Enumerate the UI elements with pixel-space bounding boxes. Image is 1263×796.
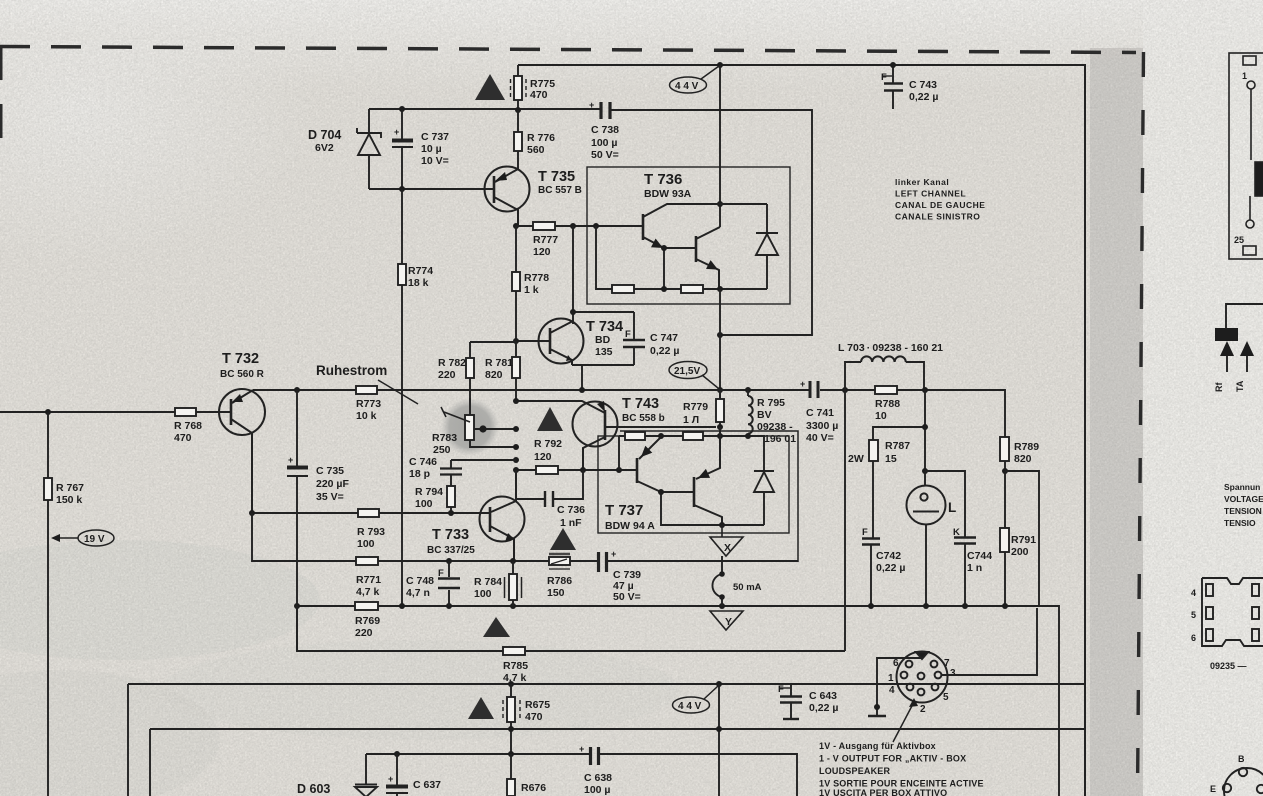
svg-text:C 741: C 741 — [806, 407, 834, 419]
svg-text:220 µF: 220 µF — [316, 478, 349, 490]
svg-text:T 736: T 736 — [644, 171, 682, 188]
resistor R794 — [447, 486, 455, 513]
svg-text:VOLTAGE: VOLTAGE — [1224, 494, 1263, 504]
svg-text:C 638: C 638 — [584, 772, 612, 784]
svg-text:TA: TA — [1235, 380, 1245, 392]
svg-text:C 747: C 747 — [650, 332, 678, 344]
wire T736 bottom row — [596, 226, 767, 289]
resistor R675 — [503, 684, 520, 754]
node T737 Q2 emitter — [717, 433, 723, 439]
capacitor C748 — [438, 561, 460, 606]
wire T734 emitter row to C747 and rail — [572, 365, 634, 390]
wire main rail 21.5V — [253, 390, 1005, 437]
svg-text:X: X — [724, 542, 731, 554]
node R789 bottom — [1002, 468, 1008, 474]
svg-text:R773: R773 — [356, 398, 381, 410]
svg-text:15: 15 — [885, 453, 897, 465]
node T733 emitter — [510, 558, 516, 564]
svg-text:09238 -: 09238 - — [757, 421, 793, 433]
wire C638 row y=754 — [366, 754, 797, 796]
svg-text:4,7 k: 4,7 k — [356, 586, 380, 598]
svg-text:6: 6 — [893, 658, 899, 669]
resistor R774 — [398, 189, 406, 606]
svg-text:C 746: C 746 — [409, 456, 437, 468]
wire R785 row — [297, 606, 845, 651]
wire 44V lower rail y=684 — [128, 684, 1085, 796]
node 44V lower — [716, 681, 722, 687]
svg-text:R787: R787 — [885, 440, 910, 452]
wire base double line — [620, 431, 798, 562]
resistor R676 — [507, 754, 515, 796]
node R675 top — [508, 681, 514, 687]
node C742 bottom — [868, 603, 874, 609]
svg-text:L 703 · 09238 - 160 21: L 703 · 09238 - 160 21 — [838, 342, 943, 354]
panel connector top-right — [1229, 53, 1263, 259]
wire T736 emitter junction — [664, 248, 696, 289]
svg-text:F: F — [778, 684, 784, 695]
node Y column — [719, 603, 725, 609]
node R676 top — [508, 751, 514, 757]
warning triangle top — [475, 74, 505, 100]
capacitor C643 — [780, 684, 802, 719]
svg-text:T 743: T 743 — [622, 396, 659, 412]
wire emitter row y=561 — [252, 513, 798, 561]
svg-text:10 k: 10 k — [356, 410, 377, 422]
svg-text:BDW 94 A: BDW 94 A — [605, 520, 655, 532]
svg-text:T 734: T 734 — [586, 319, 623, 335]
diode T736 internal — [756, 204, 778, 289]
wire T736 output column down to rail — [719, 289, 721, 399]
svg-text:BV: BV — [757, 409, 772, 421]
wire bootstrap row y=109 (D704 node to C738 to output) — [369, 109, 812, 335]
svg-text:R 792: R 792 — [534, 438, 562, 450]
svg-text:560: 560 — [527, 144, 545, 156]
resistor R793 — [358, 509, 379, 517]
node R787 tee — [922, 424, 928, 430]
svg-text:50 V=: 50 V= — [613, 591, 641, 603]
node T736 bottom mid — [661, 286, 667, 292]
node lamp top — [922, 468, 928, 474]
svg-text:50 mA: 50 mA — [733, 582, 762, 593]
node T736 bottom right — [717, 286, 723, 292]
label 21,5V oval with pointer — [669, 362, 718, 389]
svg-text:R 767: R 767 — [56, 482, 84, 494]
wire DIN ground — [868, 658, 922, 716]
capacitor C743 — [882, 65, 903, 109]
svg-text:R 794: R 794 — [415, 486, 443, 498]
svg-text:+: + — [388, 774, 393, 784]
svg-text:1V SORTIE POUR ENCEINTE AC: 1V SORTIE POUR ENCEINTE ACTIVE — [819, 779, 984, 789]
svg-text:BC 560 R: BC 560 R — [220, 369, 265, 380]
svg-text:+: + — [800, 379, 805, 389]
svg-text:C 643: C 643 — [809, 690, 837, 702]
svg-text:F: F — [881, 72, 887, 83]
resistor R775 — [511, 65, 527, 110]
warning triangle R792 — [537, 407, 563, 431]
svg-text:120: 120 — [533, 246, 551, 258]
svg-text:1V - Ausgang für Aktivbox: 1V - Ausgang für Aktivbox — [819, 741, 936, 751]
node C747 top branch — [570, 309, 576, 315]
triangle Y testpoint — [710, 611, 743, 630]
svg-text:1 - V OUTPUT FOR „AKTIV - B: 1 - V OUTPUT FOR „AKTIV - BOX — [819, 754, 966, 764]
panel Rf/TA block — [1215, 328, 1238, 341]
diode D603 (zener) — [355, 754, 377, 796]
capacitor C742 — [862, 539, 880, 607]
svg-text:D 704: D 704 — [308, 128, 341, 142]
node rail C741/L703 left — [842, 387, 848, 393]
trimmer R783 with highlight blob — [441, 398, 499, 456]
resistor R788 — [875, 386, 897, 394]
svg-text:100: 100 — [415, 498, 433, 510]
node R774 bottom — [399, 603, 405, 609]
node T736 input column — [593, 223, 599, 229]
svg-text:R 782: R 782 — [438, 357, 466, 369]
transistor T743 — [573, 402, 717, 471]
svg-text:R783: R783 — [432, 432, 457, 444]
svg-text:R 781: R 781 — [485, 357, 513, 369]
resistor R777 — [516, 222, 643, 230]
svg-text:E: E — [1210, 784, 1216, 794]
svg-text:3300 µ: 3300 µ — [806, 420, 838, 432]
svg-text:150: 150 — [547, 587, 565, 599]
svg-text:C744: C744 — [967, 550, 992, 562]
svg-text:R 793: R 793 — [357, 526, 385, 538]
capacitor C738 electrolytic — [601, 102, 610, 119]
warning triangle R785 — [483, 617, 510, 637]
svg-text:40 V=: 40 V= — [806, 432, 834, 444]
svg-text:150 k: 150 k — [56, 494, 82, 506]
svg-text:2: 2 — [920, 704, 926, 715]
svg-text:4 4 V: 4 4 V — [678, 701, 702, 712]
node T737 emitter riser — [616, 467, 622, 473]
node wiper column — [513, 426, 519, 432]
transistor T736-Q1 (symbol) — [643, 204, 767, 248]
resistor T737 internal left — [625, 432, 645, 440]
svg-text:+: + — [611, 549, 616, 559]
capacitor C747 — [623, 312, 645, 365]
svg-text:21,5V: 21,5V — [674, 366, 700, 377]
svg-text:Rf: Rf — [1214, 382, 1224, 392]
svg-text:T 732: T 732 — [222, 351, 259, 367]
node 44V top — [717, 62, 723, 68]
resistor R769 — [355, 602, 378, 610]
svg-text:135: 135 — [595, 346, 613, 358]
svg-text:10 V=: 10 V= — [421, 155, 449, 167]
50mA measuring loop — [712, 556, 722, 606]
wire 44V top rail with right-side drop — [518, 65, 1085, 796]
node bootstrap to output column — [717, 332, 723, 338]
resistor T736 internal left — [612, 285, 634, 293]
wire D704 lower row to T735 base — [369, 188, 493, 190]
svg-text:1 n: 1 n — [967, 562, 982, 574]
resistor R787 — [869, 440, 878, 538]
svg-text:F: F — [625, 329, 631, 340]
svg-text:6V2: 6V2 — [315, 142, 334, 154]
node rail T734 emitter — [579, 387, 585, 393]
pointer arrow to DIN — [893, 702, 914, 742]
svg-text:R779: R779 — [683, 401, 708, 413]
svg-text:1: 1 — [888, 673, 894, 684]
node R783 bottom column — [513, 444, 519, 450]
resistor R779 — [716, 390, 724, 427]
svg-text:R786: R786 — [547, 575, 572, 587]
svg-text:1 k: 1 k — [524, 284, 539, 296]
resistor R781 — [512, 341, 520, 401]
triangle X testpoint — [710, 525, 743, 556]
svg-text:10 µ: 10 µ — [421, 143, 442, 155]
capacitor C746 — [440, 460, 516, 486]
svg-text:4,7 n: 4,7 n — [406, 587, 430, 599]
svg-text:Spannun: Spannun — [1224, 482, 1260, 492]
svg-text:T 733: T 733 — [432, 527, 469, 543]
wire lower mirror rail y=729 — [150, 729, 1085, 796]
resistor R778 — [512, 226, 520, 341]
resistor T737 internal right — [683, 432, 703, 440]
svg-text:6: 6 — [1191, 633, 1196, 643]
node C737 bottom — [399, 186, 405, 192]
svg-text:R 784: R 784 — [474, 576, 502, 588]
node lamp bottom — [923, 603, 929, 609]
svg-text:200: 200 — [1011, 546, 1029, 558]
svg-text:Y: Y — [725, 616, 732, 628]
svg-text:2W: 2W — [848, 453, 864, 465]
label 44V oval lower — [673, 686, 719, 713]
svg-text:BC 558 b: BC 558 b — [622, 413, 665, 424]
resistor R784 with marks — [505, 561, 522, 606]
node T734 base — [513, 338, 519, 344]
node D704/C737 top — [399, 106, 405, 112]
svg-text:470: 470 — [525, 711, 543, 723]
wire DIN pin3 — [941, 608, 1037, 675]
svg-text:R777: R777 — [533, 234, 558, 246]
resistor R786 fusible — [549, 554, 570, 569]
wire T743 emitter row — [516, 401, 605, 413]
resistor R791 — [1000, 471, 1009, 606]
svg-text:50 V=: 50 V= — [591, 149, 619, 161]
capacitor C741 electrolytic — [810, 381, 818, 398]
svg-text:18 k: 18 k — [408, 277, 429, 289]
svg-text:820: 820 — [485, 369, 503, 381]
svg-text:100 µ: 100 µ — [584, 784, 611, 796]
svg-text:T 735: T 735 — [538, 169, 575, 185]
svg-text:250: 250 — [433, 444, 451, 456]
svg-text:C 737: C 737 — [421, 131, 449, 143]
transistor T736-Q2 (symbol) — [696, 227, 720, 289]
svg-text:19 V: 19 V — [84, 534, 105, 545]
svg-text:820: 820 — [1014, 453, 1032, 465]
capacitor C737 electrolytic — [392, 109, 413, 189]
wire input row y=412 — [0, 411, 231, 413]
svg-text:4,7 k: 4,7 k — [503, 672, 527, 684]
node C637 top — [394, 751, 400, 757]
svg-text:R769: R769 — [355, 615, 380, 627]
svg-text:BDW 93A: BDW 93A — [644, 188, 692, 200]
svg-text:4: 4 — [1191, 588, 1196, 598]
svg-text:C 748: C 748 — [406, 575, 434, 587]
connector DIN socket — [897, 652, 948, 703]
svg-text:BC 337/25: BC 337/25 — [427, 545, 475, 556]
svg-text:BD: BD — [595, 334, 611, 346]
resistor R782 — [466, 342, 516, 415]
node speaker-row left corner — [294, 603, 300, 609]
svg-text:L: L — [948, 500, 956, 515]
svg-text:5: 5 — [943, 692, 949, 703]
svg-text:0,22 µ: 0,22 µ — [809, 702, 838, 714]
resistor R776 — [514, 110, 522, 169]
node R784 bottom — [510, 603, 516, 609]
svg-text:T 737: T 737 — [605, 502, 643, 519]
diode D704 (zener) — [357, 109, 381, 189]
svg-text:220: 220 — [438, 369, 456, 381]
svg-text:120: 120 — [534, 451, 552, 463]
label 19V oval with arrow — [54, 530, 114, 546]
node R675 crossing — [508, 726, 514, 732]
wire C744 branch — [925, 471, 965, 537]
svg-text:R676: R676 — [521, 782, 546, 794]
svg-text:C 637: C 637 — [413, 779, 441, 791]
wire base row y=513 — [252, 512, 489, 514]
node C748 top — [446, 558, 452, 564]
svg-text:10: 10 — [875, 410, 887, 422]
svg-text:CANALE SINISTRO: CANALE SINISTRO — [895, 212, 980, 222]
transistor T737-Q1 (symbol) — [637, 437, 661, 492]
node rail C735 — [294, 387, 300, 393]
node R791 bottom — [1002, 603, 1008, 609]
svg-text:1: 1 — [1242, 71, 1247, 81]
box T737 — [598, 436, 789, 533]
svg-text:+: + — [579, 744, 584, 754]
svg-text:R788: R788 — [875, 398, 900, 410]
resistor R785 — [503, 647, 525, 655]
svg-text:C742: C742 — [876, 550, 901, 562]
node R792 left — [513, 467, 519, 473]
warning triangle R675 — [468, 697, 494, 719]
svg-text:R675: R675 — [525, 699, 550, 711]
svg-text:F: F — [438, 568, 444, 579]
resistor R773 — [356, 386, 377, 394]
capacitor C736 — [516, 470, 583, 507]
svg-text:0,22 µ: 0,22 µ — [650, 345, 679, 357]
wire R789 node to outer drop — [1005, 471, 1039, 606]
border dashed top — [0, 47, 1136, 53]
svg-text:100 µ: 100 µ — [591, 137, 618, 149]
node C746 branch — [513, 457, 519, 463]
node R795 bottom — [745, 433, 751, 439]
node output at rail — [717, 387, 723, 393]
resistor R771 — [356, 557, 378, 565]
wire 44V drop into T736 collector — [719, 65, 721, 227]
svg-text:linker Kanal: linker Kanal — [895, 177, 949, 187]
box T736 — [587, 167, 790, 304]
svg-text:C 743: C 743 — [909, 79, 937, 91]
svg-text:470: 470 — [174, 432, 192, 444]
label 44V oval top — [670, 66, 720, 93]
resistor R789 — [1000, 437, 1009, 471]
capacitor C735 electrolytic — [287, 390, 308, 651]
svg-text:R791: R791 — [1011, 534, 1036, 546]
svg-text:09235 —: 09235 — — [1210, 661, 1247, 671]
resistor T736 internal right — [681, 285, 703, 293]
svg-text:100: 100 — [474, 588, 492, 600]
transistor T737-Q2 (symbol) — [694, 427, 722, 525]
wire rail-to-R785 drop — [844, 390, 846, 651]
wire T735 collector column / node — [513, 223, 519, 229]
capacitor C638 electrolytic — [591, 747, 599, 765]
wire speaker row y=606 — [297, 606, 1059, 796]
panel round connector bottom — [1223, 768, 1263, 796]
svg-text:C 738: C 738 — [591, 124, 619, 136]
svg-text:196 01: 196 01 — [764, 433, 796, 445]
wire 44V lower drop — [718, 684, 720, 796]
svg-text:R789: R789 — [1014, 441, 1039, 453]
svg-text:TENSIO: TENSIO — [1224, 518, 1256, 528]
svg-text:LOUDSPEAKER: LOUDSPEAKER — [819, 766, 891, 776]
svg-text:TENSION: TENSION — [1224, 506, 1262, 516]
capacitor C739 electrolytic — [599, 552, 607, 572]
node input junction — [45, 409, 51, 415]
border dashed right — [1138, 52, 1144, 796]
node rail R795 — [745, 387, 751, 393]
resistor R768 — [175, 408, 196, 416]
lamp L — [907, 471, 946, 606]
wire T737 top row — [619, 436, 764, 471]
node lower rail 44V column — [716, 726, 722, 732]
svg-text:25: 25 — [1234, 235, 1244, 245]
node C748 bottom — [446, 603, 452, 609]
node R777/T734-collector — [570, 223, 576, 229]
transistor T733 — [480, 470, 525, 561]
svg-text:470: 470 — [530, 89, 548, 101]
node T737 output — [719, 522, 725, 528]
resistor R792 — [516, 466, 637, 474]
node T743 base / R779 bottom — [717, 424, 723, 430]
transistor T734 — [516, 319, 584, 366]
node T743 collector — [580, 467, 586, 473]
svg-text:LEFT CHANNEL: LEFT CHANNEL — [895, 189, 966, 199]
node rail R788 right — [922, 387, 928, 393]
svg-text:+: + — [288, 455, 293, 465]
transistor T735 — [485, 167, 530, 227]
svg-text:R 795: R 795 — [757, 397, 785, 409]
svg-text:1 Л: 1 Л — [683, 414, 699, 426]
node C744 bottom — [962, 603, 968, 609]
inductor L703 bypass coil — [845, 356, 924, 390]
node R775/R776 — [515, 107, 521, 113]
warning triangle R786 — [550, 528, 576, 550]
capacitor C744 — [954, 538, 976, 607]
svg-text:R771: R771 — [356, 574, 381, 586]
panel IC footprint — [1202, 578, 1263, 646]
svg-text:BC 557 B: BC 557 B — [538, 185, 582, 196]
svg-text:3: 3 — [950, 668, 956, 679]
resistor R767 — [44, 412, 52, 796]
transistor T732 — [219, 389, 265, 513]
inductor R795 coil — [748, 390, 753, 436]
wire T734 collector column — [573, 226, 634, 324]
node T737 Q1 emitter — [658, 433, 664, 439]
node R794 bottom — [448, 510, 454, 516]
svg-text:0,22 µ: 0,22 µ — [909, 91, 938, 103]
svg-text:D 603: D 603 — [297, 782, 330, 796]
svg-text:C 736: C 736 — [557, 504, 585, 516]
svg-text:F: F — [862, 527, 868, 538]
node T732 collector — [249, 510, 255, 516]
border dash left edge — [0, 46, 3, 150]
wire T737 Q1 collector to Q2 base — [661, 492, 764, 525]
svg-text:0,22 µ: 0,22 µ — [876, 562, 905, 574]
svg-text:1 nF: 1 nF — [560, 517, 582, 529]
svg-text:K: K — [953, 527, 960, 538]
